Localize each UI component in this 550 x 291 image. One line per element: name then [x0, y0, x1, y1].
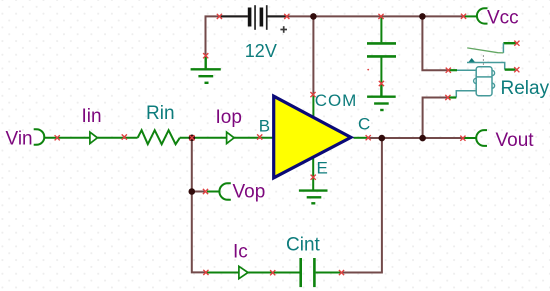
junction node output to relay [419, 135, 426, 142]
wire COM drop [312, 16, 314, 94]
svg-text:Vcc: Vcc [487, 8, 519, 29]
relay coil curl left [474, 78, 477, 83]
junction node top Vcc branch [419, 13, 426, 20]
junction node at Rin output [189, 135, 196, 142]
wire main input green [44, 137, 90, 139]
battery B1 lead left [221, 15, 248, 17]
node X at C [366, 135, 371, 140]
relay blade [467, 48, 503, 53]
battery B1 plate thick 1 [248, 8, 252, 27]
node X Vcc [461, 14, 466, 19]
relay pivot line [467, 63, 505, 70]
capacitor C1 lead bottom [380, 58, 382, 84]
wire apex to output [353, 137, 368, 139]
relay mechanical link dashed [482, 55, 484, 67]
capacitor C1 lead top [380, 17, 382, 42]
connection X marks [55, 14, 520, 276]
wire Iin to resistor [98, 137, 138, 139]
node X after Ic [270, 270, 275, 275]
wire output horizontal [368, 137, 463, 139]
wire E green stub [312, 156, 314, 190]
node X battery left [217, 14, 222, 19]
wire Vop green stub [207, 191, 219, 193]
terminal Vin arc [34, 129, 45, 145]
relay NC contact stub [503, 42, 516, 44]
wire relay coil bottom feed [423, 98, 449, 139]
battery plus sign [280, 26, 287, 33]
junction node top COM [310, 13, 317, 20]
wire relay coil top feed [422, 16, 448, 70]
wire top-left from battery to corner [206, 16, 248, 54]
relay coil curl right 2 [492, 83, 495, 88]
svg-text:12V: 12V [245, 41, 277, 61]
junction node output to Cint [379, 135, 386, 142]
svg-text:E: E [317, 159, 328, 178]
relay pivot triangle [468, 58, 475, 62]
transistor Q1 triangle [274, 96, 351, 178]
svg-text:Vop: Vop [233, 181, 266, 202]
svg-text:Ic: Ic [233, 242, 248, 263]
wire COM green stub [312, 95, 314, 116]
node X cap ground [379, 81, 384, 86]
node X COM [310, 92, 315, 97]
wire Ic arrow to Cint [248, 272, 300, 274]
svg-text:Relay: Relay [501, 78, 550, 99]
battery B1 plate thin 2 [266, 5, 268, 30]
wire left feedback vertical [192, 138, 206, 273]
relay coil curl right 1 [492, 70, 495, 75]
ground under battery [191, 57, 221, 83]
resistor Rin zigzag [138, 130, 180, 144]
wire bottom green left [206, 272, 239, 274]
wire resistor to Iop [180, 137, 227, 139]
node X E [311, 175, 316, 180]
relay common stub [505, 68, 516, 70]
wire Vop stub [192, 191, 206, 193]
battery B1 plate thick 2 [260, 8, 264, 27]
wire bottom right feedback [342, 138, 382, 272]
node X Vout [460, 136, 465, 141]
node X after Iin [122, 134, 127, 139]
terminal Vcc arc [477, 8, 488, 23]
node X cap top [378, 14, 383, 19]
svg-text:Rin: Rin [146, 103, 175, 124]
svg-text:Iop: Iop [216, 107, 242, 128]
capacitor Cint plate right [313, 258, 316, 287]
ground under emitter E [299, 191, 328, 204]
capacitor C1 plate bottom [367, 55, 396, 58]
capacitor Cint plate left [299, 258, 302, 287]
svg-text:COM: COM [315, 91, 357, 110]
svg-text:Vin: Vin [6, 129, 33, 150]
relay coil midline [476, 76, 492, 78]
relay coil lead top teal [457, 69, 477, 71]
battery B1 lead right [268, 15, 287, 17]
svg-text:Vout: Vout [496, 130, 535, 151]
node X relay common [514, 67, 519, 72]
node X Vop [203, 189, 208, 194]
node X relay coil bottom [445, 95, 450, 100]
node X bottom left [203, 270, 208, 275]
svg-text:Cint: Cint [286, 234, 321, 255]
current arrow Iop [227, 132, 235, 143]
stray red dot artifact [367, 69, 369, 71]
relay coil stub green bottom [449, 96, 457, 98]
ground under capacitor C1 [367, 84, 396, 110]
node X relay coil top [446, 68, 451, 73]
node X ground battery [203, 53, 208, 58]
wire Vcc stub [464, 15, 478, 17]
terminal Vout arc [476, 130, 487, 146]
node X relay NC [514, 41, 519, 46]
relay coil lead bottom teal [456, 91, 476, 98]
svg-text:B: B [259, 116, 270, 135]
wire top from battery right to Vcc [268, 15, 464, 17]
node X after Cint [339, 270, 344, 275]
relay coil stub green top [449, 69, 458, 71]
relay coil box [476, 67, 492, 96]
svg-text:C: C [358, 115, 370, 134]
current arrow Ic [239, 266, 248, 278]
capacitor C1 plate top [367, 42, 396, 45]
battery B1 plate thin 1 [254, 5, 256, 30]
wire Iop to B [233, 137, 274, 139]
node X battery right [284, 14, 289, 19]
relay NC vertical [502, 43, 504, 53]
node X at B [257, 134, 262, 139]
current arrow Iin [90, 132, 98, 143]
svg-text:Iin: Iin [82, 106, 102, 127]
wire Cint to corner [316, 272, 342, 274]
terminal Vop arc [219, 183, 230, 200]
node X Vin [55, 135, 60, 140]
node X at junction Rin [189, 135, 194, 140]
junction node at Vop [189, 188, 196, 195]
wire Vout stub [464, 137, 477, 139]
